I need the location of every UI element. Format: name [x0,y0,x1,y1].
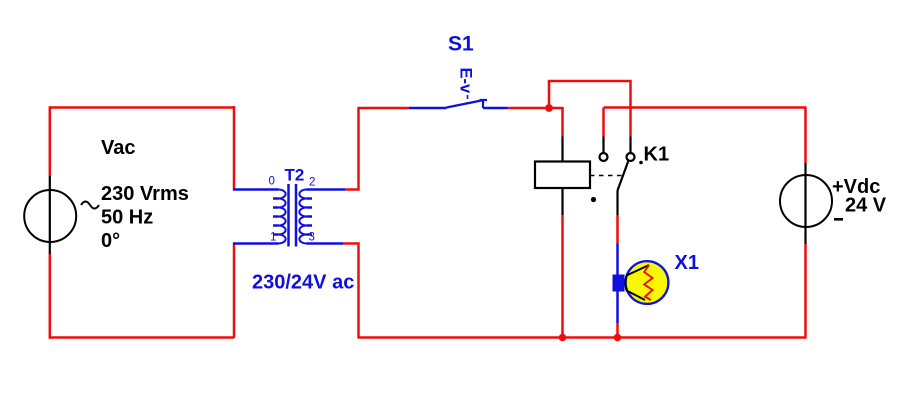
relay K1 blade [618,161,629,191]
wire: top loop from junction [549,81,631,137]
wire: left loop right vertical bottom [233,243,236,338]
wire: middle left vertical top (red) [345,108,359,190]
wire: switch to junction red [508,107,563,110]
wire: right loop top [604,106,807,109]
relay K1 pivot dot [591,197,596,202]
transformer T2 secondary lead top [307,188,346,191]
wire: middle top red segment [358,107,410,110]
wire: left loop right vertical top [233,106,236,190]
junction dot top [545,104,553,112]
wire: top loop black stub [629,137,631,154]
wire: middle bottom [358,336,807,339]
svg-text:3: 3 [309,232,315,244]
wire: switch left lead blue [409,107,447,110]
switch S1 right terminal [480,100,488,108]
wire: relay coil bottom lead [561,188,563,338]
transformer T2 primary lead bottom [233,242,279,245]
switch S1 blade [447,101,482,108]
relay K1 dashed link [590,175,623,177]
svg-text:1: 1 [270,232,276,244]
junction dot bottom left [559,334,567,342]
label K1 dot [639,161,643,165]
source Vdc circle [780,175,832,227]
minus mark [834,218,843,221]
junction dot bottom right [614,334,622,342]
wire: relay common lead [602,108,605,154]
relay K1 contact terminal right [627,153,635,161]
transformer T2 primary winding [273,190,286,244]
wire: right loop right vertical [804,108,807,339]
switch S1 key dashed pointer [467,95,469,103]
svg-text:230 Vrms: 230 Vrms [101,183,189,205]
relay K1 coil box [535,162,590,189]
lamp X1 bulb [626,261,669,304]
lamp X1 filament [644,265,652,300]
transformer T2 secondary lead bottom [307,242,344,245]
wire: lamp lead blue [616,244,619,324]
svg-text:Vac: Vac [101,137,135,159]
wire: left loop left vertical [49,106,52,338]
transformer T2 core [289,184,297,247]
source Vdc lead through circle [804,163,806,244]
wire: switch right lead blue [483,107,508,110]
lamp X1 glass wedge [625,265,649,300]
wire: middle left vertical bottom (red) [343,244,359,339]
svg-text:0: 0 [269,176,275,188]
wire: left loop bottom [50,336,234,339]
lamp X1 base square [613,275,625,292]
transformer T2 primary lead top [233,188,279,191]
wire: relay coil top lead [561,107,564,162]
source V1 lead through circle [49,176,51,254]
wire: left loop top [50,106,234,109]
svg-text:2: 2 [309,177,315,189]
svg-text:230/24V ac: 230/24V ac [252,272,354,294]
svg-text:K1: K1 [644,144,670,166]
sine mark of Vac [81,202,99,209]
svg-text:E-v: E-v [457,68,475,95]
svg-text:X1: X1 [675,252,699,274]
relay K1 contact terminal left [600,153,608,161]
svg-text:S1: S1 [448,33,474,56]
svg-text:T2: T2 [285,166,305,185]
svg-text:50 Hz: 50 Hz [101,207,153,229]
svg-text:24 V: 24 V [845,195,887,217]
transformer T2 secondary winding [299,190,312,244]
wire: lamp lead bottom red [616,323,619,338]
wire: blade lead down [616,191,618,244]
source V1 circle (Vac) [24,190,76,242]
svg-text:0°: 0° [101,230,120,252]
